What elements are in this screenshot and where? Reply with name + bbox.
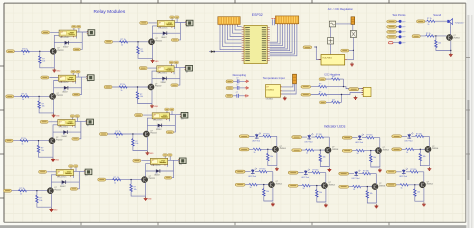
svg-text:Relay Modules: Relay Modules — [94, 9, 126, 15]
svg-text:To Speaker: To Speaker — [455, 22, 464, 25]
svg-text:2N3904: 2N3904 — [453, 37, 459, 39]
svg-text:TP?: TP? — [402, 43, 405, 45]
svg-text:R? 1k: R? 1k — [426, 33, 431, 35]
svg-text:DS18B20: DS18B20 — [266, 99, 273, 101]
svg-text:Decoupling: Decoupling — [233, 73, 247, 77]
svg-text:Indicator LEDs: Indicator LEDs — [324, 125, 346, 129]
svg-text:4k7: 4k7 — [332, 76, 335, 78]
svg-text:DS18B20: DS18B20 — [266, 89, 274, 91]
svg-text:10k: 10k — [438, 43, 441, 45]
svg-text:Sound: Sound — [433, 13, 441, 17]
svg-text:ESP32: ESP32 — [252, 13, 263, 17]
svg-text:HLK-PM01: HLK-PM01 — [323, 58, 332, 60]
svg-text:Temperature Input: Temperature Input — [263, 76, 285, 80]
svg-text:4k7: 4k7 — [332, 99, 335, 101]
svg-text:U?: U? — [266, 86, 268, 88]
svg-text:R?: R? — [319, 92, 321, 94]
svg-text:1k: 1k — [428, 24, 430, 26]
svg-text:R? 1k: R? 1k — [427, 18, 432, 20]
svg-text:R?: R? — [319, 84, 321, 86]
svg-text:AC -> DC Regulation: AC -> DC Regulation — [328, 7, 354, 11]
svg-text:Test Points: Test Points — [392, 13, 406, 17]
